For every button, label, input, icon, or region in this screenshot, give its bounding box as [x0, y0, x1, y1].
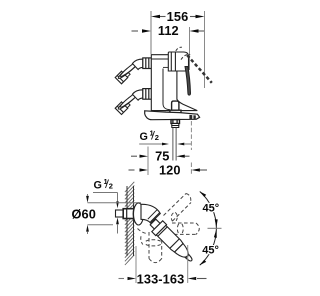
- 45 deg label lower: [202, 245, 220, 257]
- Ø60 dimension: [72, 194, 142, 234]
- elbow (plan): [141, 204, 160, 223]
- svg-text:G: G: [140, 131, 148, 143]
- faucet body: [151, 55, 197, 111]
- escutcheon (plan): [133, 203, 143, 225]
- svg-text:133-163: 133-163: [137, 271, 185, 286]
- svg-text:2: 2: [109, 182, 113, 191]
- union nut: [143, 58, 152, 69]
- dim 133-163: [119, 245, 207, 286]
- svg-text:156: 156: [167, 9, 189, 24]
- elbow nut band: [148, 210, 157, 219]
- union escutcheon plate: [117, 59, 140, 79]
- G 1/2 label (bottom): [93, 177, 119, 234]
- swivel arc with arrows: [200, 192, 217, 266]
- dimension 156: [151, 9, 205, 24]
- wall lines: [127, 186, 134, 256]
- svg-text:112: 112: [158, 23, 179, 38]
- handle block: [168, 52, 188, 71]
- spout: [145, 111, 200, 120]
- wall pipe stub: [116, 209, 135, 219]
- arc arrowheads: [199, 191, 217, 265]
- svg-text:Ø60: Ø60: [72, 207, 97, 222]
- dashed body down (alternate position): [138, 229, 162, 263]
- shower hose stub: [171, 120, 180, 161]
- handle dashed (raised position): [187, 55, 212, 83]
- dashed body horizontal (alternate position): [172, 223, 199, 234]
- svg-text:45°: 45°: [202, 245, 219, 257]
- 45 deg label upper: [202, 203, 219, 215]
- svg-text:120: 120: [159, 162, 181, 177]
- union nipple: [115, 71, 128, 84]
- S-union top: [115, 58, 151, 84]
- dashed body up-right (alternate position): [164, 194, 192, 222]
- wall hatch: [125, 182, 134, 265]
- solid body (plan, 45 deg down-right): [148, 217, 197, 266]
- dimension 112: [132, 23, 205, 38]
- dim 75: [131, 147, 190, 164]
- extension line left (x=151) for dims 156/112: [150, 11, 152, 55]
- middle reference dash: [208, 227, 222, 229]
- extension line right (x=204.5) for dim 156: [204, 11, 206, 88]
- diverter knob: [170, 101, 181, 113]
- handle lever (solid): [185, 67, 191, 96]
- union pipe bend: [132, 59, 143, 69]
- svg-text:G: G: [94, 180, 102, 192]
- svg-text:2: 2: [155, 133, 159, 142]
- svg-text:45°: 45°: [203, 203, 220, 215]
- extension line (x=189.5) for dim 112: [189, 27, 191, 70]
- union thread neck: [125, 72, 131, 77]
- dim 120: [129, 121, 208, 177]
- G 1/2 label (top): [139, 129, 191, 146]
- aerator teeth: [189, 115, 192, 119]
- S-union bottom: [115, 89, 151, 115]
